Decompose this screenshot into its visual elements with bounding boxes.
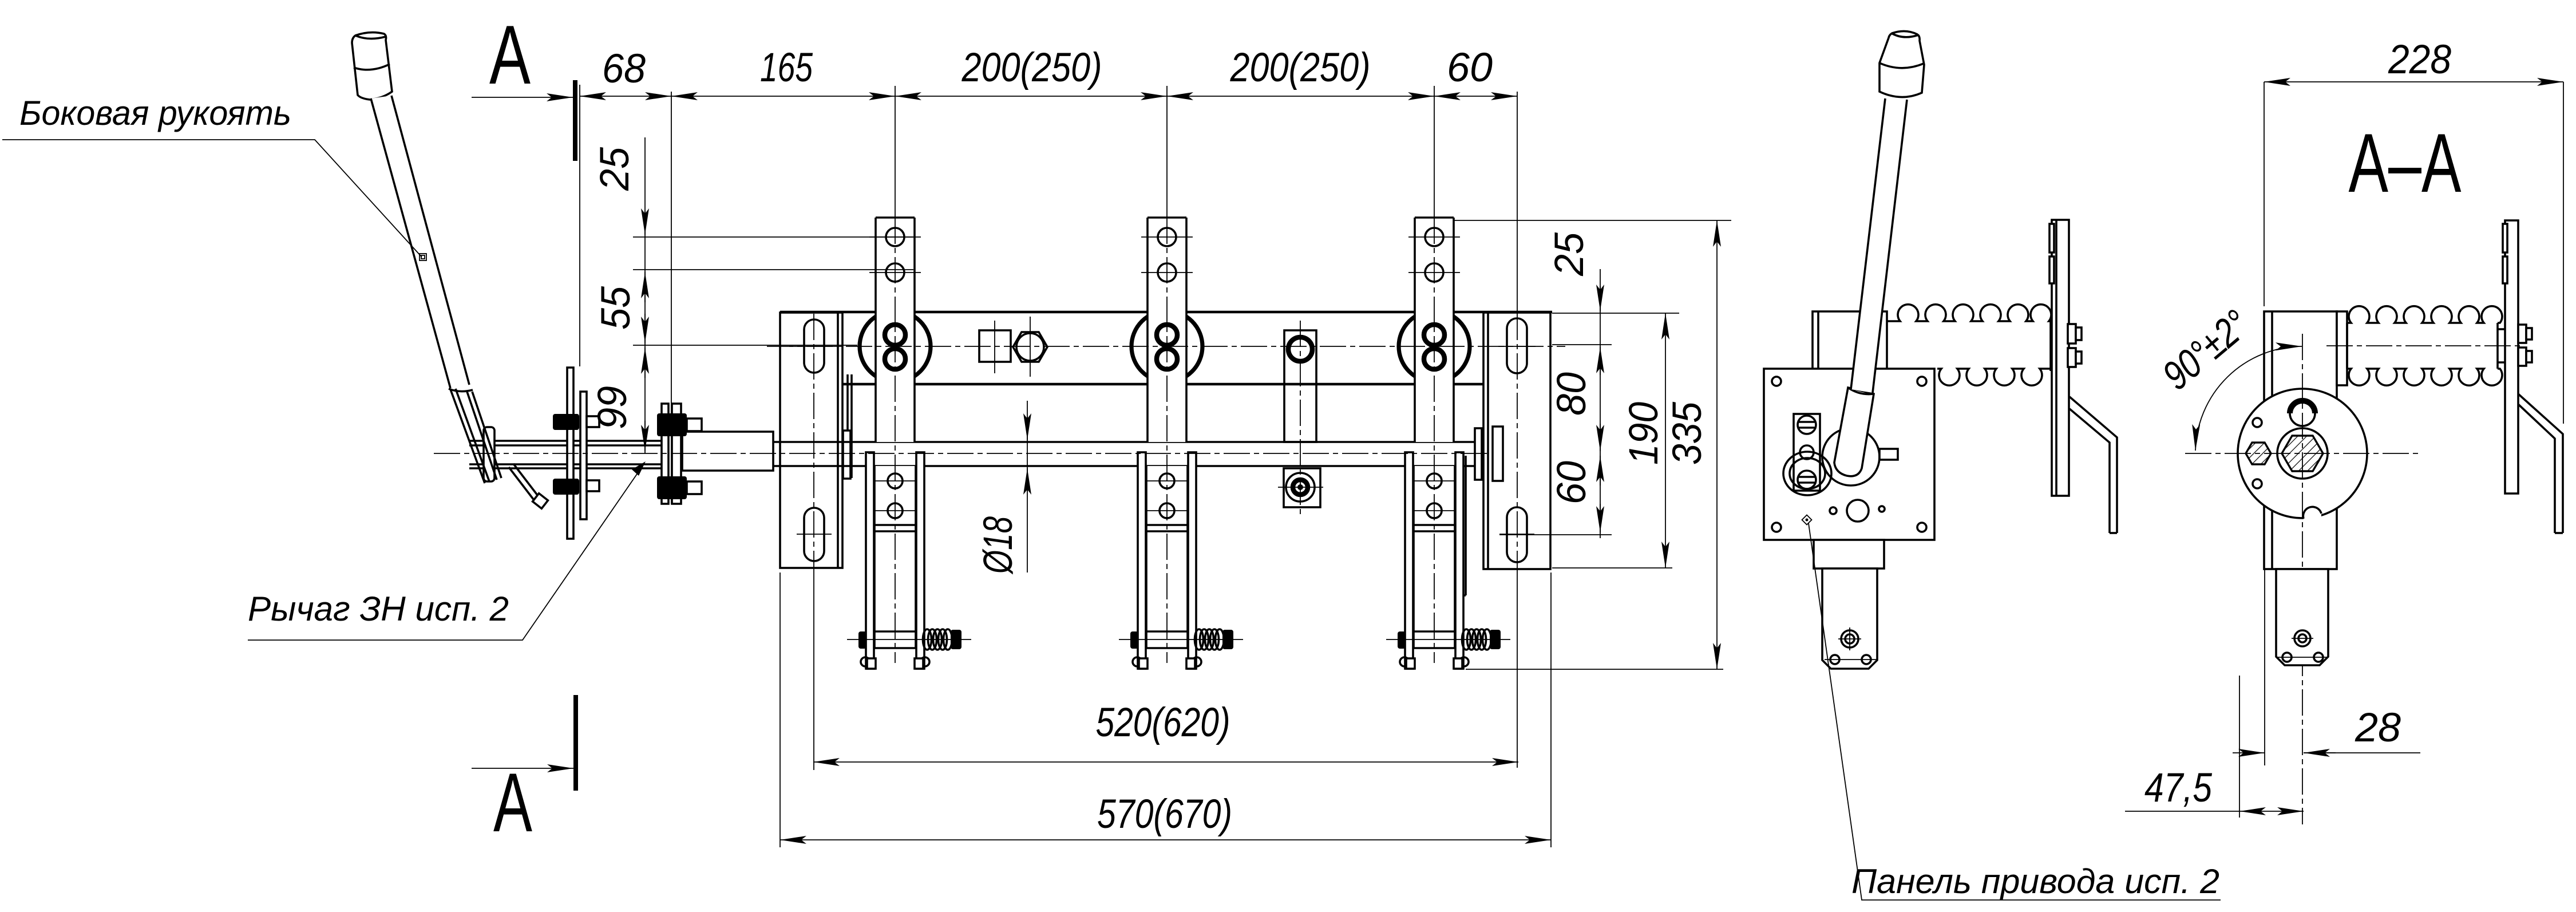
lower blade section — [875, 466, 916, 648]
pole centerline — [895, 218, 896, 663]
latch pin — [513, 464, 541, 500]
insulator right neck — [2049, 318, 2052, 371]
insulator corrugation bottom — [2347, 369, 2502, 385]
plate bolts (section) — [2518, 325, 2532, 366]
clamp bolt left — [858, 631, 866, 649]
svg-text:228: 228 — [2388, 37, 2451, 82]
knob top ellipse — [355, 35, 386, 39]
mounting plate (section) — [2505, 220, 2518, 493]
dim 28 — [2233, 569, 2420, 765]
label rychag ZN isp 2 — [248, 461, 646, 640]
ext lines — [633, 236, 913, 238]
frame channel top edge — [780, 311, 1552, 313]
dim 47,5 — [2125, 676, 2304, 818]
upper slot tick left — [789, 346, 838, 347]
lever hub washer — [484, 427, 494, 481]
center hex hole — [2277, 428, 2328, 479]
insulator centerline — [2326, 345, 2524, 346]
frame horizontal centerline — [767, 346, 1565, 347]
lever flange disc 1 — [567, 368, 573, 539]
housing (section) — [2264, 311, 2337, 569]
svg-text:Панель привода исп. 2: Панель привода исп. 2 — [1851, 862, 2219, 901]
frame channel bottom edge — [780, 383, 1483, 385]
panel bottom hole — [1847, 500, 1869, 522]
svg-text:190: 190 — [1621, 402, 1667, 465]
svg-text:99: 99 — [590, 386, 635, 429]
svg-text:A–A: A–A — [2349, 116, 2462, 210]
handle shaft (front view) — [371, 96, 469, 388]
insulator bolt rings — [885, 325, 905, 345]
bent support leg — [2069, 397, 2117, 533]
insulator corrugated body top profile — [1887, 305, 2051, 321]
panel corner holes — [1772, 377, 1781, 386]
svg-text:25: 25 — [592, 147, 638, 191]
handle shaft side view — [1851, 98, 1907, 393]
svg-text:200(250): 200(250) — [1230, 45, 1371, 90]
svg-text:60: 60 — [1447, 45, 1493, 90]
left mounting bracket — [780, 313, 842, 770]
drive panel — [1764, 369, 1934, 540]
dim phi18 — [976, 401, 1027, 574]
left hex bolt — [2246, 443, 2271, 464]
svg-text:200(250): 200(250) — [961, 45, 1102, 90]
dim 570(670) — [780, 573, 1551, 847]
insulator bottom profile — [1937, 369, 2051, 385]
upper slot tick right — [1498, 346, 1536, 347]
fork plates — [866, 452, 874, 669]
insulator corrugation top — [2347, 306, 2502, 323]
insulator base circle — [860, 311, 931, 382]
SEC:AA — [2125, 37, 2563, 824]
pole P1 — [847, 86, 971, 669]
right vertical chain 25/80/60 — [1499, 269, 1679, 538]
bearing support plate left of pole 1 — [846, 374, 849, 478]
section arrow A bottom — [472, 768, 573, 769]
svg-text:47,5: 47,5 — [2144, 765, 2212, 811]
small holes on hub — [2253, 418, 2262, 427]
pole P3 — [1386, 86, 1510, 669]
shaft stub washer to coupling — [469, 440, 662, 442]
disc bolt upper — [553, 414, 579, 430]
dim 335 — [1454, 220, 1731, 669]
dim 190 — [1552, 313, 1672, 568]
svg-text:165: 165 — [760, 45, 813, 90]
svg-text:A: A — [493, 756, 532, 849]
section plane line bottom — [573, 695, 578, 791]
coupling flange plates — [662, 404, 668, 504]
hub tab — [1879, 449, 1898, 460]
insulator base box — [1813, 311, 1887, 369]
knob collar line — [354, 64, 390, 70]
right long support plate — [1459, 456, 1461, 595]
spring coil — [923, 629, 952, 650]
svg-text:80: 80 — [1549, 372, 1594, 416]
handle sleeve top cap — [449, 389, 473, 392]
SEC:SIDE — [1764, 31, 2221, 901]
shaft left sleeve — [682, 432, 773, 471]
handle hub circle — [1822, 428, 1879, 485]
terminal block — [1794, 414, 1820, 491]
right mounting bracket — [1483, 92, 1550, 768]
drive shaft — [773, 441, 1475, 443]
svg-text:Рычаг ЗН исп. 2: Рычаг ЗН исп. 2 — [248, 590, 509, 628]
bearing washer at support plate — [843, 431, 850, 479]
handle knob (front view) — [352, 33, 392, 100]
label panel privoda — [1809, 523, 2221, 900]
square fitting on frame — [979, 330, 1011, 362]
lower shaft (section) — [2276, 569, 2328, 665]
hub disc — [2238, 389, 2367, 518]
SEC:DIMS — [2, 8, 1731, 849]
svg-text:60: 60 — [1549, 461, 1594, 504]
section arrow A top — [472, 97, 573, 98]
shaft right end disc — [1475, 428, 1482, 480]
hub centerlines — [2185, 453, 2421, 454]
svg-text:Боковая рукоять: Боковая рукоять — [19, 94, 291, 132]
bent support leg (section) — [2518, 394, 2563, 533]
lever flange disc 2 — [580, 392, 587, 519]
svg-text:25: 25 — [1547, 232, 1592, 277]
left vertical chain — [580, 85, 913, 453]
bearing bracket between poles 2-3 — [1278, 321, 1323, 515]
pole P2 — [1119, 86, 1243, 669]
svg-text:A: A — [489, 8, 531, 101]
label bokovaya rukoyat — [2, 94, 426, 260]
mounting plate (edge on) — [2052, 220, 2069, 496]
top holes — [886, 228, 904, 246]
top dim chain line — [580, 96, 1517, 97]
upper blade bar — [876, 218, 915, 442]
spring axis line — [847, 639, 971, 640]
coupling bolt lower — [657, 476, 702, 499]
svg-text:28: 28 — [2355, 705, 2401, 751]
padlock ring — [1783, 452, 1831, 495]
dim 520(620) — [813, 700, 1518, 762]
svg-text:335: 335 — [1665, 402, 1710, 465]
svg-text:570(670): 570(670) — [1097, 792, 1232, 837]
knob side view — [1879, 31, 1924, 97]
lower shaft housing — [1822, 568, 1877, 669]
top screw hole — [2290, 401, 2315, 426]
shaft right flange — [1493, 427, 1503, 481]
housing box below panel — [1814, 540, 1884, 568]
hex bolt on frame — [1013, 317, 1047, 377]
disc bolt lower — [553, 479, 579, 495]
lever arm bundle — [450, 389, 485, 483]
insulator base flange — [2337, 311, 2347, 385]
coupling bolt upper — [657, 413, 702, 436]
SEC:MAIN — [352, 33, 1552, 770]
shaft centerline — [434, 453, 1488, 454]
hub bottom notch — [2303, 507, 2321, 525]
spring bolt head right — [951, 630, 961, 649]
svg-text:Ø18: Ø18 — [976, 516, 1021, 575]
plate bolts — [2068, 324, 2082, 367]
svg-text:68: 68 — [602, 46, 646, 92]
section plane line top — [573, 80, 577, 161]
svg-text:520(620): 520(620) — [1096, 700, 1230, 745]
angle arc 90 — [2195, 346, 2302, 451]
dim 228 — [2264, 37, 2563, 424]
feet — [861, 657, 870, 666]
svg-text:55: 55 — [593, 286, 639, 330]
leader marker diamond — [1802, 515, 1812, 525]
handle sleeve (over hub) — [1834, 388, 1874, 476]
